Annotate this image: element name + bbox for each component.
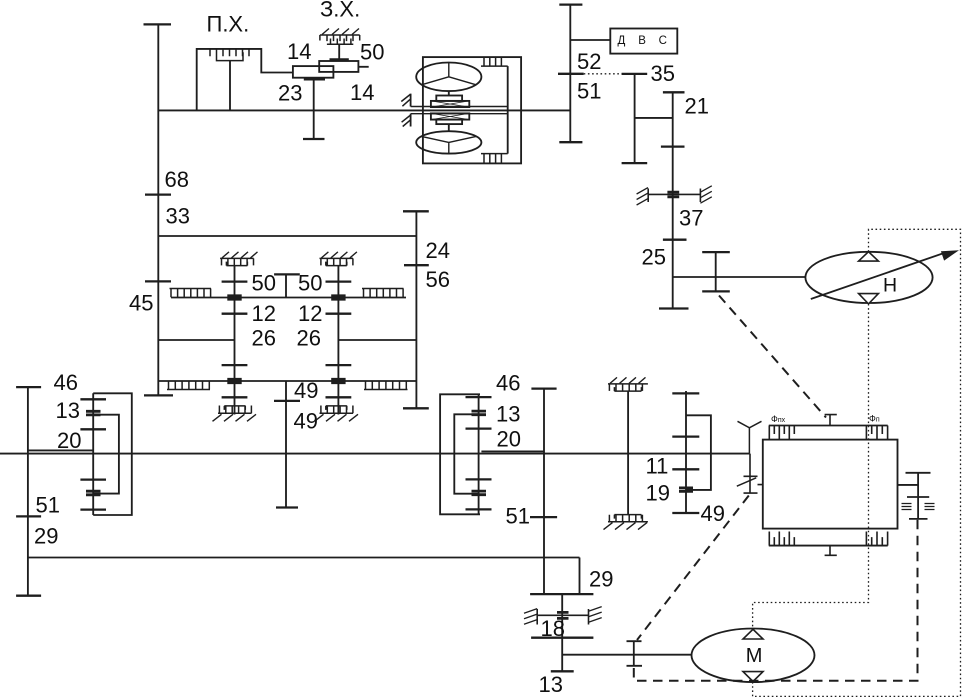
stem: center 49 output: [285, 381, 287, 508]
svg-text:68: 68: [165, 167, 189, 192]
svg-text:18: 18: [541, 616, 565, 641]
gear 50 tick right: [326, 280, 352, 282]
pump H arrow head: [941, 250, 959, 260]
svg-text:46: 46: [54, 370, 78, 395]
tick top of 24-56 shaft: [403, 210, 429, 212]
svg-text:19: 19: [646, 480, 670, 505]
svg-text:45: 45: [129, 290, 153, 315]
svg-text:26: 26: [252, 325, 276, 350]
gear 18 tick: [531, 637, 593, 639]
clutch pack bottom left: [769, 532, 794, 546]
wire: clutch PH sleeve stem: [229, 61, 231, 111]
control box housing: [763, 440, 898, 529]
pump H bottom triangle: [859, 294, 879, 304]
tick bottom of 35 shaft: [622, 162, 648, 164]
gear pair on pump shaft: [715, 252, 717, 291]
hub on 37 shaft: [667, 192, 679, 197]
wire: stem damper to turbine wheel: [448, 124, 450, 131]
feed gear arrow diagonal: [737, 478, 756, 486]
wire: stem from gear 23 down: [313, 78, 315, 139]
svg-text:49: 49: [294, 378, 318, 403]
svg-text:З.Х.: З.Х.: [320, 0, 360, 22]
gear tick below shaft right planetary: [466, 478, 492, 480]
svg-text:М: М: [746, 645, 763, 667]
clutch pack bottom right: [866, 532, 887, 546]
shaft: gear 35 vertical: [634, 74, 636, 163]
gear 20 tick right: [466, 427, 492, 429]
svg-text:12: 12: [298, 301, 322, 326]
gear 45 tick: [145, 280, 171, 282]
hatches below right bottom brake: [315, 414, 359, 421]
carrier bracket outer right planetary: [440, 394, 480, 514]
svg-text:49: 49: [701, 501, 725, 526]
tick bottom of 52-51 shaft: [559, 141, 582, 143]
feed gear left of box: [744, 454, 763, 494]
brake comb bottom left: [218, 406, 252, 414]
clutch comb left on upper shaft: [170, 289, 212, 298]
gear 25 tick bottom: [659, 307, 689, 309]
bearing hatches right: [700, 186, 711, 203]
gear 49 tick cluster: [672, 512, 699, 514]
shaft: right planetary gear vertical: [478, 394, 480, 514]
bearing hatches left final: [524, 609, 537, 625]
tick top of 35 shaft: [622, 73, 648, 75]
wire: control box bottom rail: [769, 545, 888, 547]
tick top of 46-51 vertical: [531, 387, 556, 389]
spring cross bottom: [431, 113, 469, 119]
gear 51 tick right vertical: [530, 516, 557, 518]
motor M ellipse: [692, 629, 815, 683]
shaft: right vertical 24-56: [415, 211, 417, 408]
wire: 29 bus lower: [28, 557, 580, 559]
clutch comb right on lower shaft: [364, 381, 408, 389]
carrier bracket 11-19: [686, 415, 711, 490]
bearing support on 37 shaft: [648, 189, 700, 203]
svg-text:Фп: Фп: [869, 414, 880, 424]
wire: upper gearbox shaft: [171, 297, 406, 299]
dotted hydraulic line pump top loop: [753, 229, 961, 696]
svg-text:13: 13: [539, 672, 563, 697]
svg-text:13: 13: [496, 402, 520, 427]
hub right gear on shaft1: [331, 296, 345, 299]
gear 37 tick: [663, 239, 687, 241]
svg-text:24: 24: [426, 238, 450, 263]
hub on cluster: [679, 488, 693, 491]
svg-text:20: 20: [497, 427, 521, 452]
tick bottom final drive shaft: [551, 670, 574, 672]
wire: motor output shaft: [562, 654, 691, 656]
wire: hollow shaft left: [28, 449, 93, 451]
shaft: far left output vertical: [27, 387, 29, 596]
tick top of pump gear: [702, 251, 730, 253]
svg-text:33: 33: [166, 203, 190, 228]
clutch comb left on lower shaft: [167, 381, 210, 389]
wire: 26 bus right segment: [338, 339, 416, 341]
support bars left of torque converter: [410, 94, 412, 127]
pump H variable arrow: [811, 253, 946, 300]
damper small box bottom: [436, 120, 462, 125]
hub gear 13 right: [472, 411, 487, 415]
spring cross top: [431, 101, 469, 107]
gear 20 tick: [80, 428, 106, 430]
gear 49 center tick: [274, 400, 300, 402]
gear 46 tick: [80, 398, 106, 400]
hub left gear on shaft1: [227, 296, 241, 299]
torque converter pump wheel ellipse: [416, 63, 481, 92]
gear 52 tick: [558, 73, 584, 75]
hub left gear on shaft2: [227, 379, 241, 382]
shaft: left lay gear vertical: [234, 266, 236, 415]
gear 12 tick left: [222, 313, 248, 315]
svg-text:35: 35: [651, 61, 675, 86]
torque converter turbine wheel ellipse: [416, 131, 481, 153]
hub gear 51 left: [86, 491, 101, 495]
engine DVS box: [610, 29, 677, 54]
gear 50 tick left: [222, 280, 248, 282]
ground marks at output gear: [902, 504, 935, 510]
carrier bracket inner left planetary: [93, 415, 119, 494]
svg-text:49: 49: [294, 408, 318, 433]
gear tick top of left shaft: [144, 23, 172, 25]
gear 12 tick right: [326, 313, 352, 315]
dashed control rod pump to box: [719, 296, 826, 418]
tick bottom of 49 stem: [276, 506, 298, 508]
carrier bracket inner right planetary: [454, 414, 478, 493]
wire: turbine sleeve lower line: [411, 113, 508, 115]
control box top pin: [825, 415, 837, 426]
clutch PH comb: [210, 49, 249, 61]
hub under gear 23: [304, 78, 325, 81]
hatches above left brake: [222, 252, 258, 258]
torque converter inner wall: [507, 66, 509, 154]
gear 23 coupling box: [293, 66, 334, 78]
svg-text:46: 46: [496, 370, 520, 395]
tick top of idler stem: [274, 273, 300, 275]
shaft: 11-19 gear cluster vertical: [685, 391, 687, 513]
svg-text:13: 13: [56, 398, 80, 423]
gear 19 tick: [672, 468, 699, 470]
hub above gear 14: [330, 58, 349, 61]
wire: final drive 29 gear tick: [530, 593, 593, 595]
brake comb top 11-19 unit: [608, 384, 648, 391]
svg-text:56: 56: [426, 267, 450, 292]
gear 21 tick: [661, 145, 685, 147]
output gear right of box: [906, 473, 931, 519]
gear tick top cluster: [672, 392, 699, 394]
tick top far left shaft: [16, 386, 41, 388]
torque converter housing box: [423, 57, 521, 163]
gear 68 tick: [145, 193, 171, 195]
wire: main center shaft: [0, 453, 750, 455]
gear tick lower right planetary: [466, 508, 492, 510]
gear 26 tick right: [326, 364, 352, 366]
brake comb top right of range box: [320, 258, 354, 265]
wire: 26 bus left segment: [158, 339, 234, 341]
wire: box output right: [898, 484, 919, 486]
svg-text:21: 21: [685, 93, 709, 118]
gear 26 tick left: [222, 364, 248, 366]
dashed link motor gear to box output gear: [634, 519, 918, 681]
clutch Fp pack top right: [866, 426, 887, 440]
svg-text:23: 23: [278, 80, 302, 105]
shaft: 46-51 vertical right: [543, 389, 545, 594]
carrier bracket outer left planetary: [93, 393, 132, 515]
svg-text:52: 52: [577, 49, 601, 74]
dashed link feed gear to motor gear: [637, 496, 749, 641]
gear 49 tick right: [326, 396, 352, 398]
wire: pump drive shaft: [673, 276, 806, 278]
clutch comb right on upper shaft: [362, 289, 404, 298]
hatches above brake ZH: [322, 29, 359, 35]
svg-text:50: 50: [360, 39, 384, 64]
gear 49 tick left: [222, 396, 248, 398]
wire: stub right of gear 14: [358, 66, 368, 68]
tick bottom of 24-56 shaft: [403, 407, 429, 409]
brake comb bottom 11-19 unit: [608, 515, 648, 522]
wire: 29 drop to final gear: [579, 558, 581, 595]
wire: mesh 35-21: [635, 117, 673, 119]
wire: control box top rail: [769, 425, 888, 427]
gear tick bottom of 23 stem: [303, 138, 325, 140]
shaft: final drive vertical: [561, 594, 563, 671]
svg-text:51: 51: [36, 492, 60, 517]
gear tick lower left planetary: [80, 508, 106, 510]
wire: lower gearbox shaft: [158, 380, 416, 382]
support hatches left of torque converter: [401, 94, 410, 126]
bearing hatches left: [637, 188, 648, 205]
bearing hatches right final: [589, 607, 602, 623]
svg-text:Н: Н: [883, 275, 897, 297]
damper spring box top: [431, 101, 469, 107]
dotted link 52 to 35 shaft: [584, 73, 635, 75]
svg-text:ДВС: ДВС: [618, 35, 680, 47]
svg-text:25: 25: [642, 244, 666, 269]
svg-text:14: 14: [350, 80, 374, 105]
svg-text:50: 50: [298, 270, 322, 295]
gear 46 tick right: [466, 396, 492, 398]
brake comb bottom right: [320, 406, 354, 414]
wire: stem from gear 14 up to brake ZH: [338, 44, 340, 60]
wire: hollow shaft right: [481, 450, 544, 452]
hatches below 11-19 bottom brake: [604, 523, 648, 530]
shaft: engine input vertical 52-51: [569, 5, 571, 143]
hub gear 51 right: [472, 491, 487, 495]
hatches above right brake: [321, 252, 357, 258]
control box bottom pin: [825, 546, 837, 556]
wire: link to engine DVS: [570, 39, 610, 41]
pump H top triangle: [859, 252, 879, 261]
svg-text:11: 11: [646, 453, 669, 478]
svg-text:50: 50: [252, 270, 276, 295]
gear 24-56 tick: [404, 264, 429, 266]
torque converter top teeth: [481, 57, 508, 66]
shaft: left planetary gear vertical: [92, 393, 94, 515]
shaft: left input gear shaft vertical: [157, 24, 159, 395]
svg-text:51: 51: [577, 78, 601, 103]
dotted hydraulic line pump bottom to motor: [753, 304, 869, 630]
svg-text:29: 29: [589, 566, 613, 591]
svg-text:29: 29: [34, 523, 58, 548]
turbine wheel blades: [422, 136, 477, 153]
wire: turbine sleeve upper line: [411, 106, 508, 108]
idler stem between 50 gears: [285, 274, 287, 297]
cardan fork joint: [738, 421, 762, 453]
damper small box top: [436, 96, 462, 101]
wire: step link to clutch PH: [197, 49, 293, 111]
tick bottom of pump gear: [702, 290, 730, 292]
svg-text:14: 14: [287, 39, 311, 64]
wire: main input shaft: [158, 109, 570, 111]
motor M bottom triangle: [743, 672, 763, 682]
brake ZH comb and hatching: [320, 35, 360, 44]
hub gear 13: [86, 411, 101, 415]
svg-text:26: 26: [297, 325, 321, 350]
hub final drive: [557, 612, 569, 618]
hatches below left bottom brake: [213, 414, 257, 421]
pump H ellipse: [805, 252, 932, 303]
gear 51 tick far left: [16, 515, 41, 517]
svg-text:Фпх: Фпх: [771, 414, 786, 424]
bearing support final drive: [537, 609, 588, 625]
pump wheel blades: [422, 63, 477, 85]
shaft: 11-19 drum vertical: [627, 391, 629, 515]
svg-text:П.Х.: П.Х.: [207, 12, 250, 37]
shaft: right lay gear vertical: [337, 266, 339, 415]
svg-text:20: 20: [57, 428, 81, 453]
gear on motor shaft: [627, 641, 643, 666]
wire: stem pump wheel to damper: [448, 91, 450, 95]
gear tick bottom of left shaft: [144, 394, 173, 396]
gear tick below shaft left planetary: [80, 478, 106, 480]
shaft: 21-37-25 vertical: [672, 92, 674, 308]
tick top of 52-51 shaft: [559, 3, 582, 5]
gear 14 coupling box: [319, 61, 358, 72]
brake comb top left of range box: [220, 258, 254, 265]
hub right gear on shaft2: [331, 379, 345, 382]
torque converter bottom teeth: [481, 154, 508, 164]
gear 11 tick: [672, 435, 699, 437]
svg-text:12: 12: [252, 301, 276, 326]
tick bottom far left shaft: [16, 595, 41, 597]
svg-text:37: 37: [679, 205, 703, 230]
tick top of 21 shaft: [663, 91, 685, 93]
hatches above 11-19 brake: [610, 377, 646, 383]
motor M top triangle: [743, 629, 763, 639]
wire: 33 bus: [158, 235, 416, 237]
damper spring box bottom: [431, 113, 469, 119]
svg-text:51: 51: [506, 503, 530, 528]
clutch Fpx pack top left: [769, 426, 794, 440]
